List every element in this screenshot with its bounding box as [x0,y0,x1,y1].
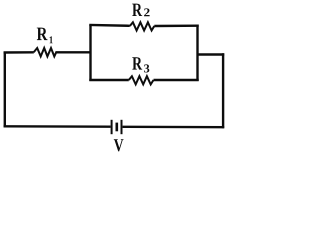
wire: top-left horizontal from left branch to R1 [4,51,34,54]
wire: left vertical branch [4,52,6,128]
battery V: middle short plate [116,123,119,132]
wire: top branch right segment from R2 to node B [154,25,198,28]
wire: from R1 to node A (left side of parallel box) [55,51,90,53]
label R1 [37,28,48,40]
resistor R2 [130,22,155,30]
label R3 [132,57,142,69]
battery V: right long plate [121,120,123,134]
battery V: left long plate [111,120,113,134]
wire: stub from node B to right vertical branch [198,53,225,55]
resistor R3 [129,76,154,84]
wire: bottom left from left branch to battery [4,125,111,128]
wire: bottom branch right segment from R3 to node B [154,79,199,81]
node B: right junction of parallel branch [196,25,198,82]
resistor R1 [34,48,57,56]
wire: top branch left segment to R2 [89,24,130,27]
wire: bottom branch left segment to R3 [89,79,129,81]
wire: bottom right from battery to right branch [123,126,225,129]
node A: left junction of parallel branch [89,25,91,82]
label V [114,139,124,151]
label R2 [132,4,142,16]
wire: right vertical branch [222,53,224,128]
